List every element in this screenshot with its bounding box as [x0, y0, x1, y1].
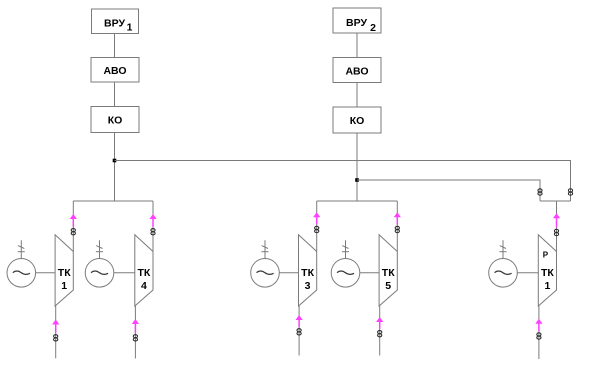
- generator G1: [7, 259, 36, 288]
- generator G5 neutral stem: [499, 240, 506, 258]
- svg-text:ТК: ТК: [382, 267, 395, 279]
- block АВО1: [91, 58, 139, 83]
- svg-text:АВО: АВО: [345, 65, 368, 77]
- connector T1 top: [71, 229, 75, 235]
- block ВРУ2: [333, 8, 381, 34]
- wire bus1: [115, 161, 571, 202]
- block КО1: [91, 107, 139, 133]
- wire G2 to T2: [114, 272, 135, 274]
- arrow T2 bottom: [132, 319, 139, 333]
- wire КО1 drop: [114, 133, 116, 202]
- generator G1 neutral stem: [18, 240, 25, 258]
- svg-text:1: 1: [127, 22, 133, 34]
- svg-text:ТК: ТК: [541, 267, 554, 279]
- wire sub-bus group1: [73, 200, 153, 202]
- transformer unit ТК3 (T3): [299, 235, 317, 306]
- connector T2 bottom: [133, 335, 137, 341]
- generator G4 neutral stem: [342, 240, 349, 258]
- svg-text:ВРУ: ВРУ: [104, 17, 125, 29]
- svg-text:5: 5: [385, 280, 391, 292]
- connector T3 bottom: [297, 329, 301, 335]
- svg-text:КО: КО: [350, 115, 365, 127]
- svg-text:1: 1: [544, 280, 550, 292]
- wire G1 to T1: [36, 272, 56, 274]
- wire T2 bottom: [134, 306, 136, 359]
- arrow T5 bottom: [535, 319, 542, 331]
- wire T3 bottom: [298, 306, 300, 356]
- arrow T5 top: [553, 213, 560, 227]
- connector T5 bottom: [537, 333, 541, 339]
- arrow T4 bottom: [376, 317, 383, 329]
- wire bus2: [357, 180, 540, 201]
- wire feeder T4 top: [396, 201, 398, 252]
- wire T4 bottom: [379, 306, 381, 356]
- connector T2 top: [151, 229, 155, 235]
- generator G5: [489, 259, 518, 288]
- svg-text:ТК: ТК: [301, 267, 314, 279]
- wire КО2 drop: [356, 133, 358, 201]
- block ВРУ1: [92, 9, 139, 34]
- arrow T3 bottom: [296, 315, 303, 327]
- wire ВРУ1-АВО1: [114, 34, 116, 58]
- svg-text:ТК: ТК: [137, 267, 150, 279]
- connector T5 top: [554, 229, 558, 235]
- connector T1 bottom: [54, 335, 58, 341]
- generator G4: [331, 259, 360, 288]
- wire АВО1-КО1: [114, 82, 116, 107]
- wire feeder T3 top: [316, 201, 318, 252]
- svg-text:3: 3: [305, 280, 311, 292]
- wire ВРУ2-АВО2: [356, 33, 358, 58]
- generator G3 neutral stem: [261, 240, 268, 258]
- svg-text:2: 2: [370, 22, 376, 34]
- transformer unit ТК1 (T5): [538, 235, 556, 306]
- block АВО2: [333, 58, 381, 83]
- generator G2 neutral stem: [96, 240, 103, 258]
- connector bus2 right drop: [538, 189, 542, 195]
- arrow T1 top: [70, 214, 77, 227]
- wire sub-bus group2: [317, 200, 398, 202]
- svg-text:Р: Р: [543, 250, 549, 259]
- generator G2: [85, 259, 114, 288]
- svg-text:4: 4: [141, 280, 147, 292]
- connector T4 top: [395, 226, 399, 232]
- wire G3 to T3: [279, 272, 298, 274]
- wire feeder T2 top: [152, 201, 154, 252]
- arrow T2 top: [149, 214, 156, 227]
- wire feeder T5 top: [556, 201, 558, 252]
- svg-text:АВО: АВО: [103, 65, 126, 77]
- transformer unit ТК4 (T2): [135, 235, 153, 306]
- wire АВО2-КО2: [356, 83, 358, 108]
- arrow T1 bottom: [52, 320, 59, 333]
- svg-text:ТК: ТК: [58, 267, 71, 279]
- wire G4 to T4: [360, 272, 379, 274]
- connector T4 bottom: [378, 331, 382, 337]
- arrow T4 top: [394, 212, 401, 224]
- node bus1 tap: [113, 159, 117, 163]
- wire feeder T1 top: [72, 201, 74, 252]
- wire G5 to T5: [517, 272, 538, 274]
- svg-text:1: 1: [61, 280, 67, 292]
- connector bus1 right drop: [568, 189, 572, 195]
- svg-text:КО: КО: [108, 115, 123, 127]
- block КО2: [333, 107, 381, 133]
- arrow T3 top: [313, 212, 320, 224]
- svg-text:ВРУ: ВРУ: [346, 17, 367, 29]
- transformer unit ТК1 (T1): [55, 235, 73, 306]
- node bus2 tap: [355, 178, 359, 182]
- wire T5 bottom: [538, 306, 540, 359]
- connector T3 top: [315, 226, 319, 232]
- generator G3: [251, 259, 280, 288]
- wire T1 bottom: [55, 306, 57, 358]
- wire sub-bus reserve: [540, 200, 571, 202]
- transformer unit ТК5 (T4): [379, 235, 397, 306]
